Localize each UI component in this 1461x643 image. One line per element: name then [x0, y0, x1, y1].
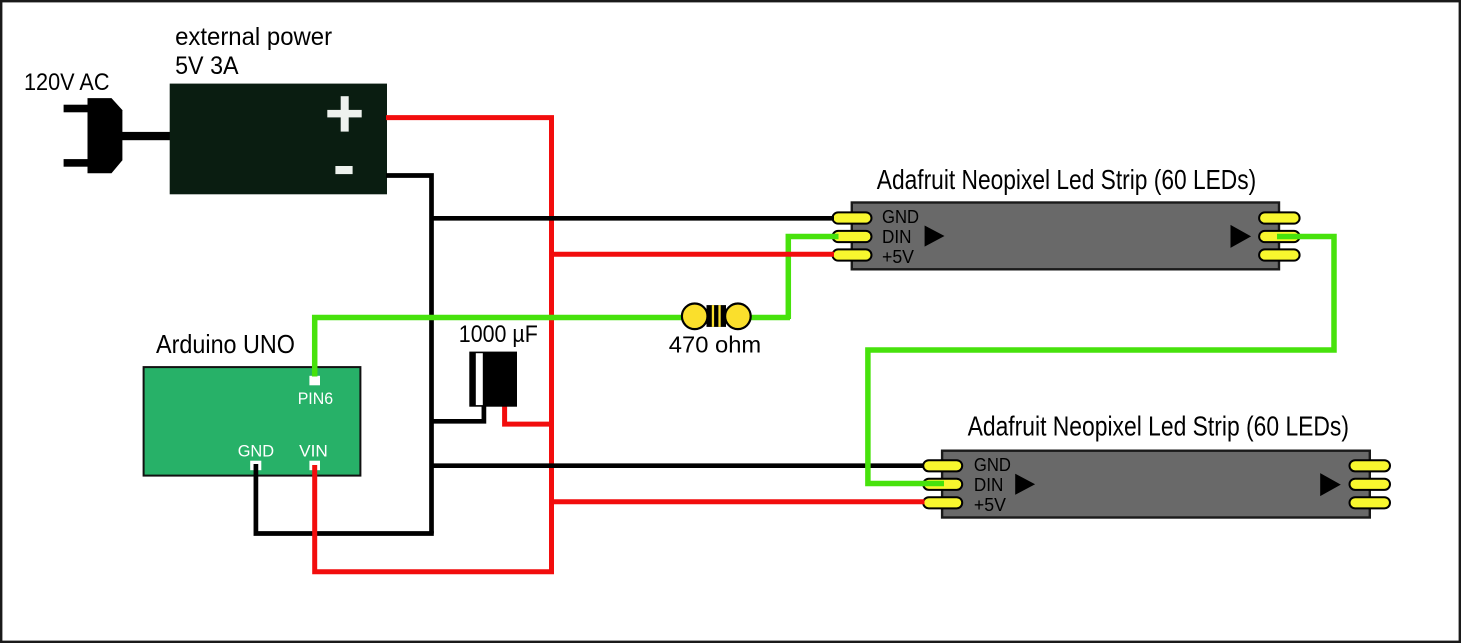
svg-text:GND: GND [974, 454, 1011, 475]
strip 2 left pad +5V [923, 497, 962, 508]
wire black branch to strip1 GND [432, 216, 835, 221]
strip 1 left arrow [925, 226, 945, 247]
svg-text:5V 3A: 5V 3A [175, 52, 239, 80]
Arduino PIN6 pad [309, 376, 320, 386]
svg-text:470 ohm: 470 ohm [669, 331, 761, 357]
strip 2 left pad DIN [923, 479, 962, 490]
AC plug prong lower [64, 159, 89, 167]
Arduino UNO board [144, 367, 361, 476]
resistor middle band [707, 305, 727, 327]
wire green strip1 DOUT to strip2 DIN [868, 237, 1334, 484]
minus terminal symbol [335, 166, 352, 174]
strip 1 right arrow [1231, 225, 1252, 248]
svg-text:DIN: DIN [882, 226, 912, 247]
wire black Arduino GND [256, 464, 434, 534]
strip 1 right pad DIN [1259, 231, 1300, 242]
Arduino GND pad [250, 461, 261, 471]
strip 2 right pad +5V [1350, 497, 1391, 508]
resistor left bead [682, 304, 708, 330]
svg-text:GND: GND [882, 206, 919, 227]
svg-text:+5V: +5V [974, 494, 1007, 515]
wire red capacitor lead [505, 400, 552, 424]
wire green data under (resistor right to strip1 DIN) [788, 237, 838, 320]
wire red branch to strip1 +5V [552, 252, 835, 257]
strip 2 left pad GND [923, 460, 962, 471]
strip 1 left pad DIN [833, 231, 872, 242]
svg-text:1000 µF: 1000 µF [459, 321, 538, 348]
strip 2 right arrow [1320, 473, 1341, 496]
svg-text:120V AC: 120V AC [24, 69, 110, 96]
strip 2 left arrow [1015, 474, 1035, 495]
neopixel strip 2 body [942, 451, 1370, 518]
plus terminal symbol [327, 110, 361, 118]
svg-text:Adafruit Neopixel Led Strip (6: Adafruit Neopixel Led Strip (60 LEDs) [968, 410, 1349, 441]
wire green PIN6 to resistor [315, 318, 790, 377]
wire black capacitor lead [432, 400, 484, 421]
wire red Arduino VIN [315, 465, 554, 572]
svg-text:GND: GND [238, 443, 274, 461]
AC plug prong upper [64, 105, 89, 113]
strip 1 right pad +5V [1259, 249, 1300, 260]
capacitor stripe [476, 353, 483, 405]
wire black ground main (minus terminal down) [386, 176, 432, 534]
wire red branch to strip2 +5V [552, 499, 925, 504]
svg-text:+5V: +5V [882, 246, 915, 267]
strip 1 left pad GND [833, 212, 872, 223]
resistor right bead [725, 304, 751, 330]
neopixel strip 1 body [852, 203, 1279, 270]
svg-text:VIN: VIN [299, 443, 328, 461]
wire red +5V main (plus terminal down) [386, 118, 552, 572]
power supply box [170, 84, 387, 195]
strip 2 right pad DIN [1350, 479, 1391, 490]
svg-text:Arduino UNO: Arduino UNO [156, 329, 295, 359]
resistor 470 ohm [682, 304, 751, 330]
svg-text:Adafruit Neopixel Led Strip (6: Adafruit Neopixel Led Strip (60 LEDs) [877, 164, 1256, 195]
AC cord [121, 132, 171, 140]
svg-text:PIN6: PIN6 [298, 390, 333, 408]
capacitor C1 body [469, 352, 517, 407]
strip 2 right pad GND [1350, 460, 1391, 471]
strip 1 left pad +5V [833, 249, 872, 260]
svg-text:external power: external power [175, 23, 332, 51]
wire black branch to strip2 GND [432, 463, 924, 468]
Arduino VIN pad [309, 461, 320, 471]
AC plug body [88, 98, 123, 173]
strip 1 right pad GND [1259, 212, 1300, 223]
svg-text:DIN: DIN [974, 474, 1004, 495]
